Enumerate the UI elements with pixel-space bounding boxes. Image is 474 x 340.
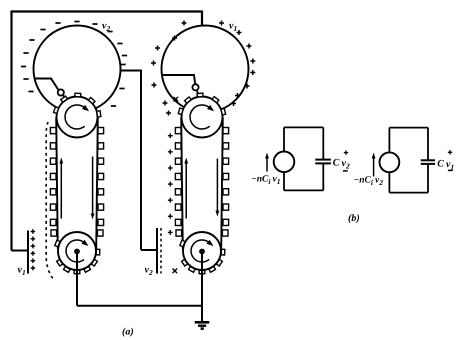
bottom pulley 1 belt segments	[55, 240, 60, 246]
belt 2 down arrow	[216, 159, 218, 212]
svg-text:−nCi: −nCi	[353, 176, 373, 188]
collector roller machine 2	[192, 84, 198, 90]
bottom pulley 2 shaft dot	[200, 249, 205, 254]
circuit 2 loop wires	[389, 128, 428, 193]
wire top (cross-connection to sphere v1)	[11, 10, 203, 12]
collector link machine 2	[196, 90, 198, 94]
collector link machine 1	[63, 95, 66, 99]
bottom pulley 1 shaft dot	[75, 249, 80, 254]
wire electrode 1 feed	[12, 250, 29, 252]
belt 1 minus-charge dashed line	[46, 122, 54, 281]
plus charge signs around sphere 2	[182, 22, 187, 24]
minus charge signs around sphere 1	[55, 22, 60, 24]
svg-text:(b): (b)	[348, 213, 360, 224]
belt 1 charge segments right run	[98, 128, 104, 134]
wire bottom pulley 1 to bus	[76, 251, 78, 306]
top pulley 2 belt segments	[178, 108, 183, 114]
svg-text:C: C	[437, 159, 444, 170]
wire bottom bus	[77, 305, 202, 307]
current source 2 reference arrow	[373, 158, 375, 177]
wire middle drop	[140, 70, 142, 251]
collector electrode inside sphere 2	[162, 75, 195, 84]
belt 1 left run	[56, 118, 58, 250]
svg-text:(a): (a)	[122, 327, 134, 338]
svg-text:−nCi: −nCi	[251, 175, 271, 187]
svg-text:C: C	[333, 158, 340, 169]
belt 2 up arrow	[185, 163, 187, 219]
wire sphere v2 output	[120, 70, 141, 72]
circuit 1 loop wires	[284, 127, 323, 190]
bottom pulley machine 1	[58, 232, 96, 270]
wire electrode 2 feed	[141, 249, 157, 251]
belt 2 charge segments right run	[223, 128, 229, 134]
belt 2 plus-charge column	[168, 135, 173, 137]
svg-text:v2: v2	[375, 176, 383, 188]
belt 1 down arrow	[92, 157, 94, 215]
plus signs at electrode 1	[31, 231, 36, 233]
bottom pulley 2 rotation arrow	[191, 240, 209, 262]
wire drop into sphere v1	[201, 11, 203, 27]
current source -nCiv2 (U2)	[380, 152, 400, 172]
sphere terminal 1 (charge -v2)	[34, 26, 121, 113]
svg-text:v1: v1	[272, 175, 280, 187]
current source -nCiv1 (U1)	[274, 152, 295, 173]
bottom pulley 2 belt segments	[180, 240, 185, 246]
wire left border (v1 terminal to electrode 1)	[10, 11, 12, 251]
belt 2 right run	[221, 118, 223, 250]
wire bottom pulley 2 to ground	[201, 251, 203, 322]
top pulley machine 2	[182, 97, 223, 138]
collector electrode inside sphere 1	[34, 79, 59, 91]
belt 1 right run	[96, 118, 98, 250]
top pulley 1 rotation arrow	[65, 105, 85, 129]
top pulley 1 belt segments	[54, 107, 59, 114]
collector roller machine 1	[58, 89, 64, 95]
induced charge dashed line at electrode 2	[160, 228, 162, 274]
charging electrode 2 (plate)	[156, 228, 158, 274]
belt 1 last segment left	[51, 230, 57, 236]
capacitor C (circuit 1)	[315, 159, 331, 161]
ground	[195, 321, 210, 324]
belt 1 charge segments left run	[50, 128, 56, 134]
capacitor C (circuit 2)	[421, 159, 435, 161]
sphere terminal 2 (charge +v1)	[162, 26, 249, 113]
belt 2 last segment right	[222, 230, 228, 236]
top pulley 2 rotation arrow	[190, 105, 210, 129]
charging electrode 1 (plate)	[27, 231, 29, 274]
belt 1 up arrow	[60, 163, 62, 219]
belt 1 last segment right	[97, 230, 103, 236]
bottom pulley 1 rotation arrow	[66, 240, 84, 262]
belt 2 charge segments left run	[175, 128, 181, 134]
x mark near top pulley 2	[174, 97, 179, 102]
belt 2 left run	[181, 118, 183, 250]
belt 2 last segment left	[176, 230, 182, 236]
x mark near electrode 2	[173, 269, 178, 274]
current source 1 reference arrow	[266, 158, 268, 172]
top pulley machine 1	[57, 97, 98, 138]
bottom pulley machine 2	[183, 232, 221, 270]
